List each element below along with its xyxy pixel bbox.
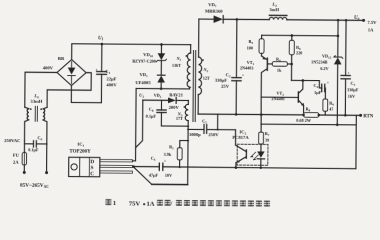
capacitor C2 330uF 25V — [215, 18, 245, 115]
junction C8 return on bias vertical — [187, 125, 189, 127]
wire N2 top riser — [198, 19, 200, 57]
common-mode choke L0 33mH — [24, 93, 47, 144]
svg-text:Uo: Uo — [354, 16, 360, 21]
svg-text:U1: U1 — [98, 36, 104, 41]
resistor R5 100 — [247, 35, 265, 56]
opto light arrows — [250, 152, 258, 160]
svg-text:47µF: 47µF — [149, 173, 159, 178]
node S junction — [132, 165, 135, 168]
svg-text:1N5234B: 1N5234B — [311, 59, 328, 64]
opto LED — [257, 144, 265, 169]
svg-text:MBR360: MBR360 — [205, 9, 223, 14]
svg-text:16V: 16V — [348, 94, 355, 99]
resistor R1 3.9k — [164, 139, 190, 168]
capacitor C1 22uF 400V — [95, 44, 118, 103]
svg-text:FU: FU — [13, 153, 20, 158]
svg-text:136T: 136T — [172, 63, 181, 68]
svg-text:250V: 250V — [208, 132, 219, 137]
svg-text:0.1µF: 0.1µF — [146, 113, 157, 118]
wire RTN rail (rail 1) — [198, 113, 303, 116]
junction zener column at top rail — [337, 19, 340, 22]
svg-text:33mH: 33mH — [30, 99, 42, 104]
svg-text:1: 1 — [113, 200, 116, 207]
svg-text:BZY97-C200: BZY97-C200 — [132, 58, 156, 63]
svg-text:75V: 75V — [129, 200, 141, 207]
node U2 label — [139, 92, 144, 98]
capacitor C5 47uF 10V — [149, 155, 172, 177]
junction clamp top — [160, 43, 163, 46]
wire AC line right with crossover — [47, 72, 91, 90]
bridge rectifier BR 400V — [43, 56, 87, 86]
resistor R8 0.68 2W — [296, 106, 360, 123]
svg-text:100: 100 — [247, 45, 253, 50]
node U1 label — [98, 36, 104, 41]
svg-text:220: 220 — [296, 50, 302, 55]
transistor VT1 2N4403 — [240, 56, 273, 97]
svg-text:10V: 10V — [165, 173, 172, 178]
svg-text:BR: BR — [58, 56, 65, 61]
junction C1 top — [101, 43, 104, 46]
resistor R4 1k — [272, 56, 293, 72]
IC1 TOP200Y package — [69, 142, 100, 178]
svg-text:1000p: 1000p — [189, 132, 201, 137]
wire drain vertical to TOP200 D pin — [133, 88, 137, 160]
svg-text:3.9k: 3.9k — [164, 152, 172, 157]
wire top rail right of L2 — [287, 19, 364, 22]
junction C2 bottom on RTN rail — [235, 113, 238, 116]
capacitor C8 0.1uF bias filter — [146, 100, 189, 126]
resistor R6 220 — [289, 35, 302, 80]
svg-text:2N4403: 2N4403 — [240, 65, 254, 70]
transformer primary N1 136T — [172, 45, 191, 88]
capacitor C4 1uF — [313, 81, 329, 99]
optocoupler IC2 PC817A — [232, 129, 268, 165]
svg-text:+: + — [164, 159, 166, 163]
resistor R7 39 — [259, 124, 270, 144]
junction R6 top — [291, 34, 294, 37]
svg-text:0.68 2W: 0.68 2W — [296, 118, 312, 123]
diode VD7 MBR360 — [199, 2, 223, 23]
svg-text:39: 39 — [265, 137, 269, 142]
svg-text:400V: 400V — [106, 82, 117, 87]
junction clamp bottom node — [160, 87, 163, 90]
svg-text:UF4005: UF4005 — [135, 80, 151, 85]
inductor L2 3mH — [269, 2, 287, 20]
svg-text:+: + — [327, 81, 329, 85]
svg-text:2A: 2A — [13, 159, 19, 164]
AC input terminals 85V~265VAC — [20, 144, 50, 189]
svg-text:BAV21: BAV21 — [169, 92, 183, 97]
transformer secondary N2 12T — [198, 57, 210, 95]
svg-text:+: + — [242, 74, 244, 78]
wire right edge drop to control line — [355, 115, 357, 168]
wire feed rail R5 R6 to output column — [262, 34, 338, 37]
wire primary ground rail — [152, 183, 188, 185]
svg-text:1k: 1k — [277, 67, 282, 72]
svg-text:/: / — [169, 201, 172, 208]
wire primary DC+ top rail — [72, 44, 191, 61]
svg-text:RTN: RTN — [363, 115, 374, 120]
svg-text:S: S — [90, 165, 93, 171]
zener VD12 1N5234B 6.2V — [311, 20, 343, 126]
svg-text:6.2V: 6.2V — [320, 66, 328, 71]
svg-text:47: 47 — [329, 106, 333, 111]
wire secondary top rail — [223, 18, 269, 20]
svg-text:200V: 200V — [169, 105, 180, 110]
diode VD1 UF4005 — [135, 72, 165, 89]
wire VD2 anode drop joining drain line — [136, 100, 143, 148]
svg-text:0.1µF: 0.1µF — [28, 147, 39, 152]
pin S lead — [100, 165, 133, 167]
capacitor C6 0.1uF X-cap — [4, 135, 47, 152]
pin C lead — [100, 171, 133, 173]
opto phototransistor — [235, 130, 248, 169]
pin D lead — [100, 159, 133, 161]
svg-text:1µF: 1µF — [314, 90, 322, 95]
svg-text:1A: 1A — [146, 200, 154, 207]
wire AC line left (bridge left vertex to input) — [25, 72, 57, 107]
junction VT column crossing RTN rail — [260, 113, 263, 116]
capacitor C7 1000p 250V Y-cap — [187, 119, 236, 138]
wire Y-cap riser to RTN rail — [217, 114, 219, 129]
fuse FU 2A — [13, 141, 27, 165]
zener VD10 BZY97-C200 — [132, 44, 166, 75]
svg-text:3mH: 3mH — [269, 7, 279, 12]
transformer bias winding N3 17T — [176, 100, 188, 121]
diode VD2 BAV21 200V — [143, 92, 189, 110]
svg-text:PC817A: PC817A — [232, 135, 249, 140]
wire S diagonal to primary ground — [134, 167, 152, 184]
svg-text:TOP200Y: TOP200Y — [69, 150, 91, 155]
svg-text:7.5V: 7.5V — [367, 20, 377, 25]
svg-text:C: C — [90, 171, 94, 177]
svg-text:12T: 12T — [203, 76, 210, 81]
wire control line long run to right — [163, 167, 356, 169]
svg-text:1A: 1A — [368, 27, 374, 32]
svg-text:330µF: 330µF — [215, 78, 228, 83]
svg-text:22µF: 22µF — [106, 76, 116, 81]
wire VT2 collector node to C4 — [291, 80, 321, 88]
svg-text:2N4401: 2N4401 — [271, 96, 285, 101]
caption figure 1 — [105, 199, 269, 208]
transformer T core — [192, 51, 195, 122]
capacitor C3 330uF 16V — [341, 19, 360, 117]
wire bridge DC- to C1 bottom — [71, 86, 101, 103]
svg-text:25V: 25V — [221, 84, 230, 89]
svg-text:400V: 400V — [43, 65, 54, 70]
wire VT column crossing — [260, 97, 262, 124]
wire rail 2 (zener return) — [261, 123, 356, 126]
svg-text:17T: 17T — [176, 116, 183, 121]
wire control line C5 left — [134, 166, 160, 168]
resistor R9 47 — [323, 99, 334, 115]
wire clamp bottom / primary bottom node — [136, 87, 190, 89]
wire bias return vertical — [187, 121, 190, 185]
transistor VT2 2N4401 — [261, 80, 304, 112]
wire N2 bottom to RTN rail — [197, 95, 199, 114]
svg-text:330µF: 330µF — [347, 87, 359, 92]
svg-text:+: + — [347, 71, 349, 75]
RTN terminal — [359, 114, 374, 120]
svg-text:250VAC: 250VAC — [4, 138, 20, 143]
junction VT2 collector — [302, 79, 305, 82]
output terminal U0 7.5V 1A — [354, 16, 377, 33]
